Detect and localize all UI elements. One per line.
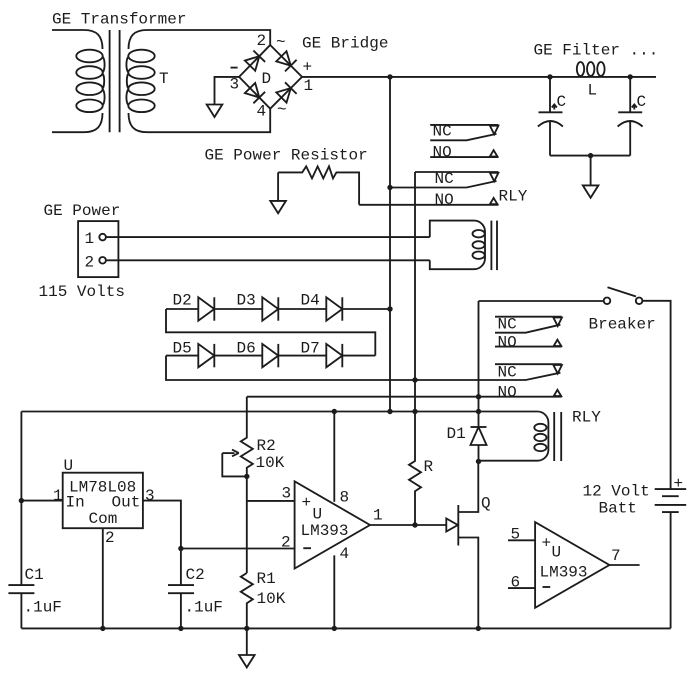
svg-text:R2: R2 bbox=[257, 437, 276, 455]
svg-text:12 Volt: 12 Volt bbox=[583, 483, 650, 501]
breaker contact circle left bbox=[604, 298, 611, 305]
svg-text:115 Volts: 115 Volts bbox=[39, 283, 125, 301]
transformer T secondary winding bbox=[126, 30, 154, 132]
node junction trunk B resistor R bbox=[412, 409, 417, 414]
svg-text:10K: 10K bbox=[257, 590, 286, 608]
svg-text:NO: NO bbox=[498, 333, 517, 351]
relay contact group 1 NO bbox=[430, 143, 498, 161]
node junction pin8 tap bbox=[332, 409, 337, 414]
svg-text:10K: 10K bbox=[256, 454, 285, 472]
potentiometer R2 bbox=[222, 397, 253, 477]
svg-text:NO: NO bbox=[433, 143, 452, 161]
svg-text:D7: D7 bbox=[301, 340, 320, 358]
label GE Bridge bbox=[302, 35, 388, 53]
svg-text:+: + bbox=[542, 535, 552, 553]
wire filter bottom to ground bbox=[590, 156, 592, 186]
svg-text:2: 2 bbox=[85, 254, 95, 272]
relay coil 1 bbox=[430, 221, 485, 270]
node junction filter bottom bbox=[588, 153, 593, 158]
op-amp U LM393 first bbox=[295, 481, 370, 568]
label regulator pin 3 bbox=[145, 487, 155, 505]
svg-text:Com: Com bbox=[89, 510, 118, 528]
svg-text:GE Power: GE Power bbox=[44, 202, 121, 220]
node junction trunk B bottom row bbox=[412, 377, 417, 382]
connector GE Power box bbox=[78, 221, 118, 277]
connector pin 1 bbox=[85, 230, 106, 248]
wire trunk B vertical bbox=[414, 172, 416, 412]
svg-text:1: 1 bbox=[373, 507, 383, 525]
label C1 .1uF bbox=[24, 566, 62, 617]
svg-text:LM393: LM393 bbox=[540, 564, 588, 582]
svg-text:D1: D1 bbox=[447, 425, 466, 443]
svg-text:Batt: Batt bbox=[599, 500, 637, 518]
svg-text:D2: D2 bbox=[173, 292, 192, 310]
label RLY top bbox=[499, 188, 528, 206]
wire resistor left to ground bbox=[277, 172, 279, 201]
svg-text:GE Transformer: GE Transformer bbox=[52, 11, 186, 29]
svg-text:GE Filter ...: GE Filter ... bbox=[534, 42, 659, 60]
svg-text:C: C bbox=[557, 93, 567, 111]
diode D2 bbox=[166, 292, 214, 321]
svg-text:D6: D6 bbox=[237, 340, 256, 358]
wire op-amp2 pin 7 output bbox=[609, 564, 639, 566]
diode D7 bbox=[301, 340, 343, 368]
svg-text:3: 3 bbox=[230, 76, 240, 94]
svg-text:1: 1 bbox=[85, 230, 95, 248]
svg-text:R1: R1 bbox=[257, 570, 276, 588]
node junction left rail pin 1 bbox=[19, 498, 24, 503]
transformer T core bbox=[110, 30, 120, 132]
node junction rail source bbox=[476, 626, 481, 631]
resistor R bbox=[409, 412, 421, 526]
svg-text:7: 7 bbox=[611, 547, 621, 565]
ground at bridge minus bbox=[207, 105, 223, 118]
svg-text:RLY: RLY bbox=[499, 188, 528, 206]
node junction coil 2 bottom bbox=[476, 459, 481, 464]
wire op-amp1 output to gate bbox=[370, 524, 446, 526]
label R2 10K bbox=[256, 437, 285, 472]
svg-text:1: 1 bbox=[53, 487, 63, 505]
svg-text:In: In bbox=[66, 494, 85, 512]
diode D6 bbox=[237, 340, 279, 368]
svg-text:NC: NC bbox=[498, 316, 517, 334]
bridge diode top-right bbox=[276, 51, 296, 71]
label Q bbox=[481, 495, 491, 513]
svg-text:Out: Out bbox=[112, 494, 141, 512]
node junction rail pin2 bbox=[100, 626, 105, 631]
node junction rail pin4 bbox=[332, 626, 337, 631]
svg-text:C1: C1 bbox=[25, 566, 44, 584]
wire D4 to trunk A bbox=[342, 308, 390, 310]
bridge rectifier D outline bbox=[239, 45, 302, 109]
wire regulator Out to C2 bbox=[143, 501, 181, 585]
svg-text:C: C bbox=[637, 93, 647, 111]
svg-text:Q: Q bbox=[481, 495, 491, 513]
svg-text:2: 2 bbox=[257, 32, 267, 50]
label regulator pin 1 bbox=[53, 487, 63, 505]
connector pin 2 bbox=[85, 254, 106, 272]
relay contact group 2 NC bbox=[415, 170, 498, 188]
relay coil 2 core bbox=[554, 412, 561, 461]
label C2 .1uF bbox=[185, 566, 223, 617]
node junction trunk A armature bbox=[387, 185, 392, 190]
wire op-amp pin 3 input bbox=[247, 500, 295, 502]
wire op-amp1 pin 8 bbox=[333, 412, 335, 502]
wire op-amp2 pin 5 stub bbox=[508, 539, 535, 541]
label battery plus bbox=[674, 475, 684, 493]
label L bbox=[588, 82, 598, 100]
wire comparator feed bbox=[247, 396, 479, 398]
resistor GE power bbox=[278, 166, 359, 204]
label R1 10K bbox=[257, 570, 286, 608]
label C right bbox=[637, 93, 647, 111]
svg-text:.1uF: .1uF bbox=[24, 599, 62, 617]
svg-text:RLY: RLY bbox=[572, 409, 601, 427]
svg-text:~: ~ bbox=[276, 34, 286, 52]
node junction trunk A end bbox=[387, 409, 392, 414]
inductor L loops bbox=[577, 62, 605, 76]
svg-text:+: + bbox=[302, 494, 312, 512]
label op-amp1 pin 8 bbox=[340, 489, 350, 507]
node junction Out / pin2 wire bbox=[178, 546, 183, 551]
wire R2 to R1 bbox=[246, 476, 248, 573]
label GE Power Resistor bbox=[205, 147, 368, 165]
label Breaker bbox=[589, 316, 656, 334]
node junction filter right bbox=[628, 74, 633, 79]
relay contact group 1 NC bbox=[430, 123, 498, 141]
diode D4 bbox=[301, 292, 343, 321]
label op-amp2 pin 6 bbox=[511, 574, 521, 592]
wire D5 row bottom bbox=[166, 356, 560, 380]
battery 12 Volt bbox=[655, 489, 687, 512]
wire filter bottom bbox=[550, 155, 630, 157]
bridge pin labels bbox=[230, 32, 314, 121]
svg-text:U: U bbox=[552, 544, 562, 562]
diode D3 bbox=[237, 292, 279, 321]
wire pin1 to relay coil 1 bbox=[106, 236, 430, 238]
wire D5 to D6 bbox=[214, 355, 262, 357]
label 115 Volts bbox=[39, 283, 125, 301]
svg-text:4: 4 bbox=[257, 103, 267, 121]
svg-text:3: 3 bbox=[145, 487, 155, 505]
svg-text:NC: NC bbox=[433, 123, 452, 141]
svg-text:NO: NO bbox=[435, 191, 454, 209]
wire secondary bottom to bridge pin 4 bbox=[147, 109, 270, 133]
breaker lever bbox=[608, 287, 637, 296]
svg-text:C2: C2 bbox=[186, 566, 205, 584]
label op-amp1 pin 1 bbox=[373, 507, 383, 525]
relay contact group 4 NC bbox=[495, 364, 562, 382]
node junction filter left bbox=[547, 74, 552, 79]
svg-text:GE Bridge: GE Bridge bbox=[302, 35, 388, 53]
wire left rail vertical bbox=[20, 412, 22, 586]
wire op-amp1 pin 4 bbox=[333, 555, 335, 628]
node junction rail C2 bbox=[178, 626, 183, 631]
wire D2 row loop back bbox=[166, 309, 375, 356]
wire bottom ground rail bbox=[21, 627, 670, 629]
label op-amp1 pin 4 bbox=[340, 545, 350, 563]
wire left rail to regulator In bbox=[21, 500, 62, 502]
relay contact group 1 armature bbox=[430, 134, 496, 140]
transformer T primary winding bbox=[52, 30, 105, 132]
svg-text:R: R bbox=[424, 458, 434, 476]
bridge diode bottom-left bbox=[245, 83, 265, 103]
svg-text:4: 4 bbox=[340, 545, 350, 563]
svg-text:GE Power Resistor: GE Power Resistor bbox=[205, 147, 368, 165]
wire D3 to D4 bbox=[278, 308, 326, 310]
wire D6 to D7 bbox=[278, 355, 326, 357]
op-amp U LM393 second bbox=[535, 522, 609, 608]
svg-text:Breaker: Breaker bbox=[589, 316, 656, 334]
svg-text:2: 2 bbox=[105, 529, 115, 547]
label T bbox=[159, 70, 169, 88]
svg-text:LM393: LM393 bbox=[301, 522, 349, 540]
resistor R1 bbox=[241, 573, 253, 628]
label RLY bottom bbox=[572, 409, 601, 427]
regulator U LM78L08 bbox=[63, 457, 143, 528]
bridge diode top-left bbox=[245, 51, 265, 71]
relay contact group 3 NO bbox=[495, 333, 562, 351]
wire supply line to coil 2 bbox=[21, 411, 478, 413]
wire bridge plus output rail bbox=[302, 76, 656, 78]
diode D1 bbox=[447, 425, 487, 445]
breaker contact circle right bbox=[636, 298, 643, 305]
label op-amp2 pin 7 bbox=[611, 547, 621, 565]
relay coil 1 core bbox=[491, 221, 497, 271]
ground at filter bbox=[583, 185, 599, 197]
node junction output / R bbox=[412, 522, 417, 527]
svg-text:L: L bbox=[588, 82, 598, 100]
svg-text:D3: D3 bbox=[237, 292, 256, 310]
svg-text:NC: NC bbox=[435, 170, 454, 188]
capacitor C right of filter bbox=[618, 77, 643, 156]
label GE Filter ... bbox=[534, 42, 659, 60]
wire bridge minus to ground bbox=[215, 77, 240, 105]
label op-amp2 pin 5 bbox=[511, 526, 521, 544]
svg-text:NO: NO bbox=[498, 383, 517, 401]
breaker wire left bbox=[479, 300, 604, 302]
svg-text:T: T bbox=[159, 70, 169, 88]
wire D2 to D3 bbox=[214, 308, 262, 310]
diode D5 bbox=[166, 340, 214, 368]
svg-text:2: 2 bbox=[281, 534, 291, 552]
svg-text:D4: D4 bbox=[301, 292, 320, 310]
label op-amp1 pin 3 bbox=[282, 485, 292, 503]
svg-text:1: 1 bbox=[304, 77, 314, 95]
transistor Q bbox=[446, 461, 478, 628]
wire battery minus to ground rail bbox=[670, 512, 672, 628]
capacitor C2 bbox=[168, 585, 194, 628]
node junction plus rail / trunk A bbox=[387, 74, 392, 79]
svg-text:3: 3 bbox=[282, 485, 292, 503]
svg-text:8: 8 bbox=[340, 489, 350, 507]
relay contact group 3 NC bbox=[495, 316, 562, 334]
svg-text:+: + bbox=[303, 59, 313, 77]
svg-text:.1uF: .1uF bbox=[185, 599, 223, 617]
wire secondary top to bridge pin 2 bbox=[147, 30, 270, 45]
svg-text:~: ~ bbox=[277, 101, 287, 119]
breaker wire right bbox=[642, 301, 670, 489]
relay contact group 3 armature bbox=[495, 325, 560, 333]
wire breaker trunk vertical bbox=[478, 301, 480, 427]
node junction R2 wiper bbox=[244, 474, 249, 479]
bridge diode bottom-right bbox=[276, 82, 296, 102]
capacitor C left of filter bbox=[538, 77, 563, 156]
relay contact group 4 NO bbox=[479, 383, 562, 401]
wire D7 to loop corner bbox=[342, 355, 375, 357]
capacitor C1 bbox=[8, 585, 34, 628]
svg-text:+: + bbox=[674, 475, 684, 493]
wire trunk A vertical bbox=[389, 77, 391, 412]
svg-text:D: D bbox=[262, 70, 272, 88]
wire rail to main ground bbox=[246, 628, 248, 655]
node junction NO4 and D1 trunk bbox=[476, 394, 481, 399]
label 12 Volt Batt bbox=[583, 483, 650, 518]
wire pin2 to relay coil 1 bbox=[106, 259, 430, 261]
label regulator pin 2 bbox=[105, 529, 115, 547]
label C left bbox=[557, 93, 567, 111]
label op-amp1 pin 2 bbox=[281, 534, 291, 552]
label GE Transformer bbox=[52, 11, 186, 29]
wire regulator Com pin 2 down bbox=[102, 528, 104, 628]
wire op-amp2 pin 6 stub bbox=[508, 587, 535, 589]
svg-text:NC: NC bbox=[498, 364, 517, 382]
label GE Power bbox=[44, 202, 121, 220]
relay contact group 2 armature bbox=[390, 181, 497, 188]
relay coil 2 bbox=[479, 412, 549, 461]
wire D1 to coil bottom node bbox=[478, 445, 480, 461]
node junction coil 2 top bbox=[476, 409, 481, 414]
relay contact group 2 NO bbox=[359, 191, 498, 209]
svg-text:U: U bbox=[313, 506, 323, 524]
ground at power resistor bbox=[270, 201, 286, 213]
ground main bbox=[239, 655, 255, 667]
node junction trunk A diode row bbox=[387, 306, 392, 311]
label R bbox=[424, 458, 434, 476]
wire op-amp pin 2 input bbox=[181, 548, 295, 550]
node junction rail R1 bbox=[244, 626, 249, 631]
